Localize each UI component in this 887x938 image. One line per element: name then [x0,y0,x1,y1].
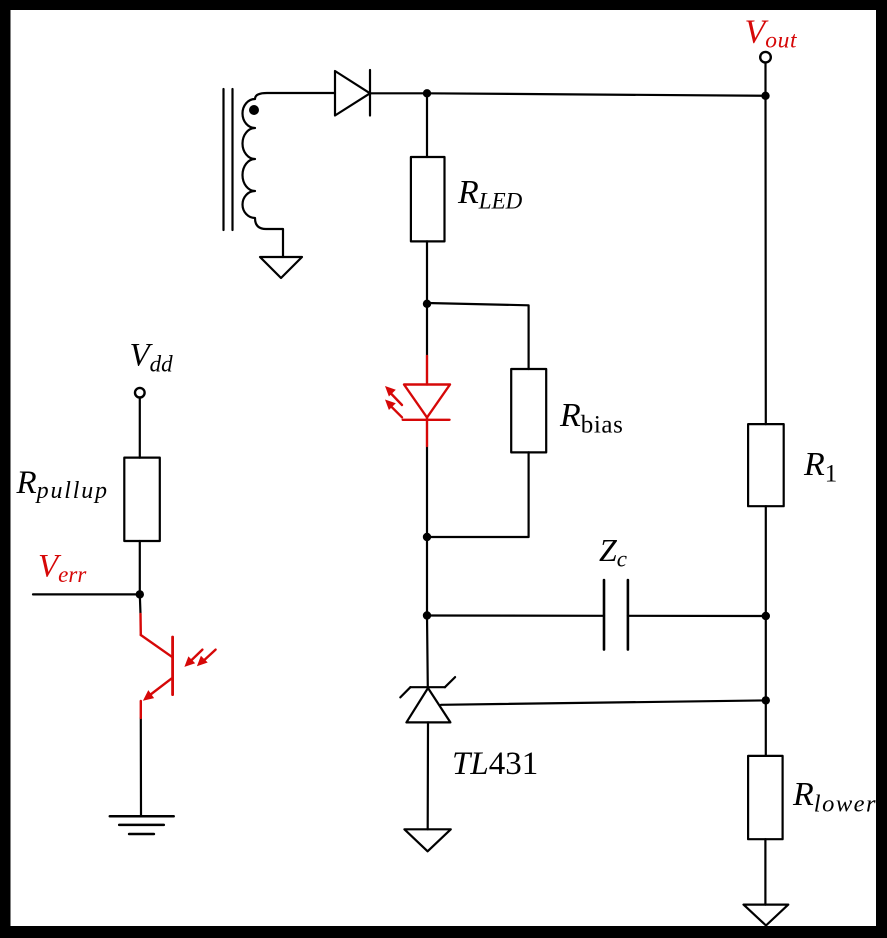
wire: node down to feedback node [426,537,428,616]
resistor R_LED [411,157,445,241]
wire: output node to Vout rail [427,93,766,96]
ground (output divider) [744,905,789,926]
wire: LED cathode (black part) [426,446,428,537]
wire: LED anode (black part) [426,304,428,356]
resistor R_lower [748,756,783,839]
ground (transformer) [260,257,302,278]
node: Vout rail [761,92,769,100]
wire: rail down to R1 [764,96,766,424]
svg-text:TL431: TL431 [452,746,538,782]
node: LED anode / R_bias top [423,300,431,308]
wire: Vout terminal to rail [764,63,766,96]
wire: R_LED to LED top node [426,241,428,303]
wire: output node down to R_LED [426,93,428,157]
LED emission arrows [385,386,402,417]
wire: Verr node to phototransistor collector [139,594,142,614]
wire: ref node down to R_lower [765,700,767,756]
node: rectifier output [423,89,431,97]
wire: node to R_bias top [427,303,529,369]
polarity dot [249,105,259,115]
wire: phototransistor emitter to ground [140,718,142,816]
ground (phototransistor) [110,816,174,834]
wire (red): LED anode [426,356,428,385]
phototransistor light arrows [184,650,215,667]
diode D1 [335,70,370,116]
optocoupler LED [403,385,450,447]
resistor R_bias [511,369,546,452]
node: divider ref [762,696,770,704]
resistor R1 [748,424,784,506]
transformer core [224,89,233,230]
node: divider top / Zc right [762,612,770,620]
transformer secondary winding [243,93,336,257]
node: TL431 cathode / Zc left [423,611,431,619]
node: Verr [136,590,144,598]
wire: Vdd terminal to R_pullup [139,398,141,458]
wire: divider node to ref node [765,616,767,700]
wire: feedback node to Zc [427,614,604,616]
resistor R_pullup [124,458,160,541]
capacitor Zc [604,580,628,650]
node: LED cathode / R_bias bottom [423,533,431,541]
terminal Vdd [135,388,145,398]
optocoupler phototransistor [141,614,173,718]
wire: feedback node down to TL431 [426,616,429,688]
TL431 shunt regulator [400,677,455,722]
wire: TL431 ref to divider node [441,700,766,704]
wire: R1 to divider node [765,506,767,616]
wire: R_bias bottom to node [427,452,529,537]
wire: R_lower to ground [764,839,766,904]
wire: TL431 anode to ground [427,722,429,829]
terminal Vout [760,52,771,63]
wire: R_pullup to Verr node [139,541,141,594]
wire: Verr stub [33,593,140,595]
wire: diode cathode to output node [370,92,427,94]
ground (TL431) [404,829,450,851]
wire: Zc to divider node [628,615,766,617]
